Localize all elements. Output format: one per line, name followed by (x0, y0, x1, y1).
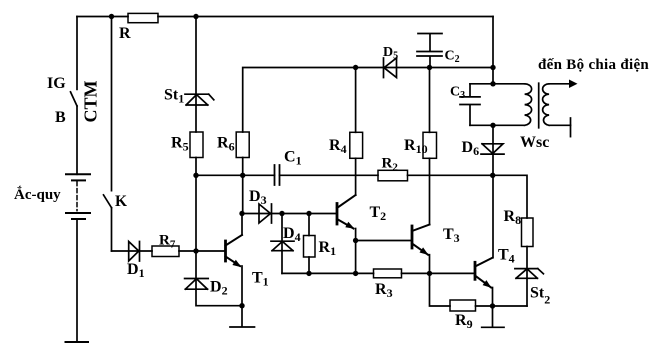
wire bottom rail left (282, 272, 374, 274)
node junction C3 loop top (490, 81, 495, 86)
resistor R4 (350, 132, 363, 158)
resistor R7 (152, 246, 179, 257)
svg-text:D5: D5 (383, 45, 398, 62)
node junction 243/175 (240, 173, 245, 178)
wire R6 bottom through C1 node (242, 158, 244, 214)
wire top rail (77, 16, 493, 18)
wire D3 anode (242, 213, 337, 215)
capacitor C2 (417, 34, 442, 68)
diode D5 (384, 58, 397, 78)
svg-text:T3: T3 (443, 226, 460, 245)
wire R6 top to rail y67 (243, 68, 493, 133)
svg-text:R4: R4 (329, 137, 347, 156)
ground T4 (482, 306, 504, 327)
svg-text:IG: IG (47, 75, 66, 92)
svg-text:St2: St2 (530, 285, 550, 307)
svg-text:D1: D1 (127, 261, 145, 280)
svg-text:D2: D2 (210, 279, 228, 298)
capacitor C3 (460, 84, 480, 126)
node junction R7 wire at vertical 196 (193, 248, 198, 253)
svg-text:T2: T2 (370, 204, 387, 223)
wire R9 to ground node (476, 305, 528, 307)
svg-text:Ắc-quy: Ắc-quy (14, 186, 61, 203)
wire C3 loop top (470, 83, 525, 85)
node junction D4 top (279, 211, 284, 216)
wire D6 to node (492, 154, 494, 175)
wire R4 bottom to T2 collector (355, 158, 357, 195)
resistor R (128, 13, 158, 22)
wire C3 loop bottom (470, 124, 525, 126)
svg-text:R2: R2 (382, 156, 399, 174)
svg-text:D3: D3 (249, 188, 267, 207)
wire T3 base (356, 240, 412, 242)
zener St2 (515, 269, 544, 279)
svg-text:R6: R6 (217, 135, 235, 154)
svg-text:C2: C2 (445, 49, 460, 66)
transistor T3 (412, 225, 430, 255)
node junction top rail at CTM (109, 14, 114, 19)
node junction T2 emitter rail (353, 271, 358, 276)
wire CTM branch lower (111, 208, 113, 251)
node junction C3 loop bottom (490, 123, 495, 128)
node junction R1 bottom (306, 271, 311, 276)
wire R8 to St2 (526, 247, 528, 279)
resistor R5 (190, 132, 203, 158)
wire base node to D2 (195, 251, 197, 289)
wire R2 to R8 corner (408, 175, 528, 218)
transistor T4 (475, 258, 493, 288)
wire R9 branch (430, 273, 451, 306)
svg-text:B: B (55, 109, 66, 126)
wire T2 emitter down (355, 229, 357, 274)
wire vertical 196 top to St1 (195, 17, 197, 106)
secondary terminal bar (570, 118, 572, 137)
wire R5 bottom to base node (195, 158, 197, 252)
node junction rail67 at R4 (353, 65, 358, 70)
resistor R3 (374, 269, 402, 278)
resistor R9 (450, 300, 476, 311)
svg-text:C1: C1 (284, 149, 302, 168)
transformer secondary winding (543, 84, 550, 126)
wire C1 row (196, 174, 378, 176)
wire D6 node down to T4 collector (492, 175, 494, 257)
node junction top rail at R5 branch (193, 14, 198, 19)
diode D3 (259, 204, 272, 223)
wire CTM branch upper (111, 17, 113, 191)
wire D2 to corner (196, 289, 242, 306)
arrowhead to distributor (569, 80, 578, 89)
diode D2 (185, 279, 209, 290)
wire secondary top with arrow (549, 83, 569, 85)
battery Ac-quy (66, 174, 90, 219)
svg-text:R1: R1 (319, 239, 337, 258)
svg-text:R5: R5 (171, 135, 189, 154)
svg-text:CTM: CTM (81, 80, 101, 122)
T4 emitter arrowhead (483, 280, 492, 288)
wire D4 top stub (281, 214, 283, 251)
resistor R1 top stub (308, 214, 310, 236)
wire R10 bottom to T3 collector (429, 158, 431, 224)
svg-text:R3: R3 (375, 281, 393, 300)
svg-text:T1: T1 (252, 270, 269, 289)
transformer Wsc primary winding (525, 84, 532, 126)
zener St1 (185, 94, 214, 105)
wire T4 emitter down (492, 288, 494, 307)
svg-text:R7: R7 (159, 233, 176, 251)
T1 emitter arrowhead (232, 260, 241, 267)
resistor R1 (304, 236, 316, 258)
node junction T4 emitter ground (490, 303, 495, 308)
node junction T3 emitter (427, 271, 432, 276)
wire T3 emitter down (429, 255, 431, 274)
node junction rail67 right end (490, 65, 495, 70)
svg-text:D4: D4 (283, 225, 301, 244)
resistor R8 (522, 218, 534, 247)
zener D4 (271, 241, 294, 251)
wire D4 bottom stub (281, 251, 283, 274)
svg-text:C3: C3 (450, 85, 465, 102)
transformer core (538, 83, 540, 128)
wire T1 collector (241, 214, 243, 236)
resistor R6 (236, 132, 249, 158)
wire battery negative lead (76, 219, 78, 342)
svg-text:R8: R8 (504, 208, 522, 227)
T2 emitter arrowhead (345, 222, 354, 229)
resistor R2 (378, 170, 408, 181)
wire K to D1 (112, 250, 153, 252)
wire left branch lower (76, 106, 78, 174)
wire top right drop (492, 17, 494, 84)
wire C3 node to D6 (492, 125, 494, 154)
switch K blade (104, 195, 112, 208)
T3 emitter arrowhead (420, 247, 429, 255)
wire T1 emitter down (241, 266, 243, 306)
svg-text:T4: T4 (498, 247, 515, 266)
battery negative terminal bar (66, 341, 89, 343)
svg-text:D6: D6 (462, 139, 480, 158)
switch IG-B blade (71, 92, 78, 106)
svg-text:St1: St1 (164, 87, 184, 106)
resistor R10 top stub (429, 68, 431, 133)
node junction 196/175 (193, 173, 198, 178)
svg-text:đến Bộ chia điện: đến Bộ chia điện (538, 57, 649, 73)
resistor R4 top stub (355, 68, 357, 133)
transistor T1 (226, 235, 243, 266)
svg-text:R9: R9 (455, 312, 473, 331)
node junction R1 top (306, 211, 311, 216)
node junction 493/175 (490, 173, 495, 178)
wire R7 to T1 base (179, 250, 226, 252)
svg-text:Wsc: Wsc (520, 134, 549, 151)
wire left branch upper (76, 17, 78, 90)
diode D1 (129, 242, 140, 262)
wire St2 bottom (526, 278, 528, 306)
wire St1 to R5 (195, 105, 197, 132)
node junction T1 emitter ground (239, 303, 244, 308)
diode D6 (481, 144, 504, 154)
resistor R1 bottom stub (308, 257, 310, 273)
ground T1 (230, 306, 255, 327)
wire bottom rail right (402, 272, 476, 274)
transistor T2 (337, 195, 356, 229)
node junction T1 collector / D3 (239, 211, 244, 216)
capacitor C1 (275, 165, 280, 185)
svg-text:R: R (119, 25, 131, 42)
node junction T2 emitter / T3 base (353, 238, 358, 243)
svg-text:K: K (115, 193, 127, 210)
node junction rail67 at C2 (427, 65, 432, 70)
resistor R10 (423, 132, 437, 158)
svg-text:R10: R10 (404, 137, 428, 156)
wire secondary bottom (549, 124, 570, 126)
